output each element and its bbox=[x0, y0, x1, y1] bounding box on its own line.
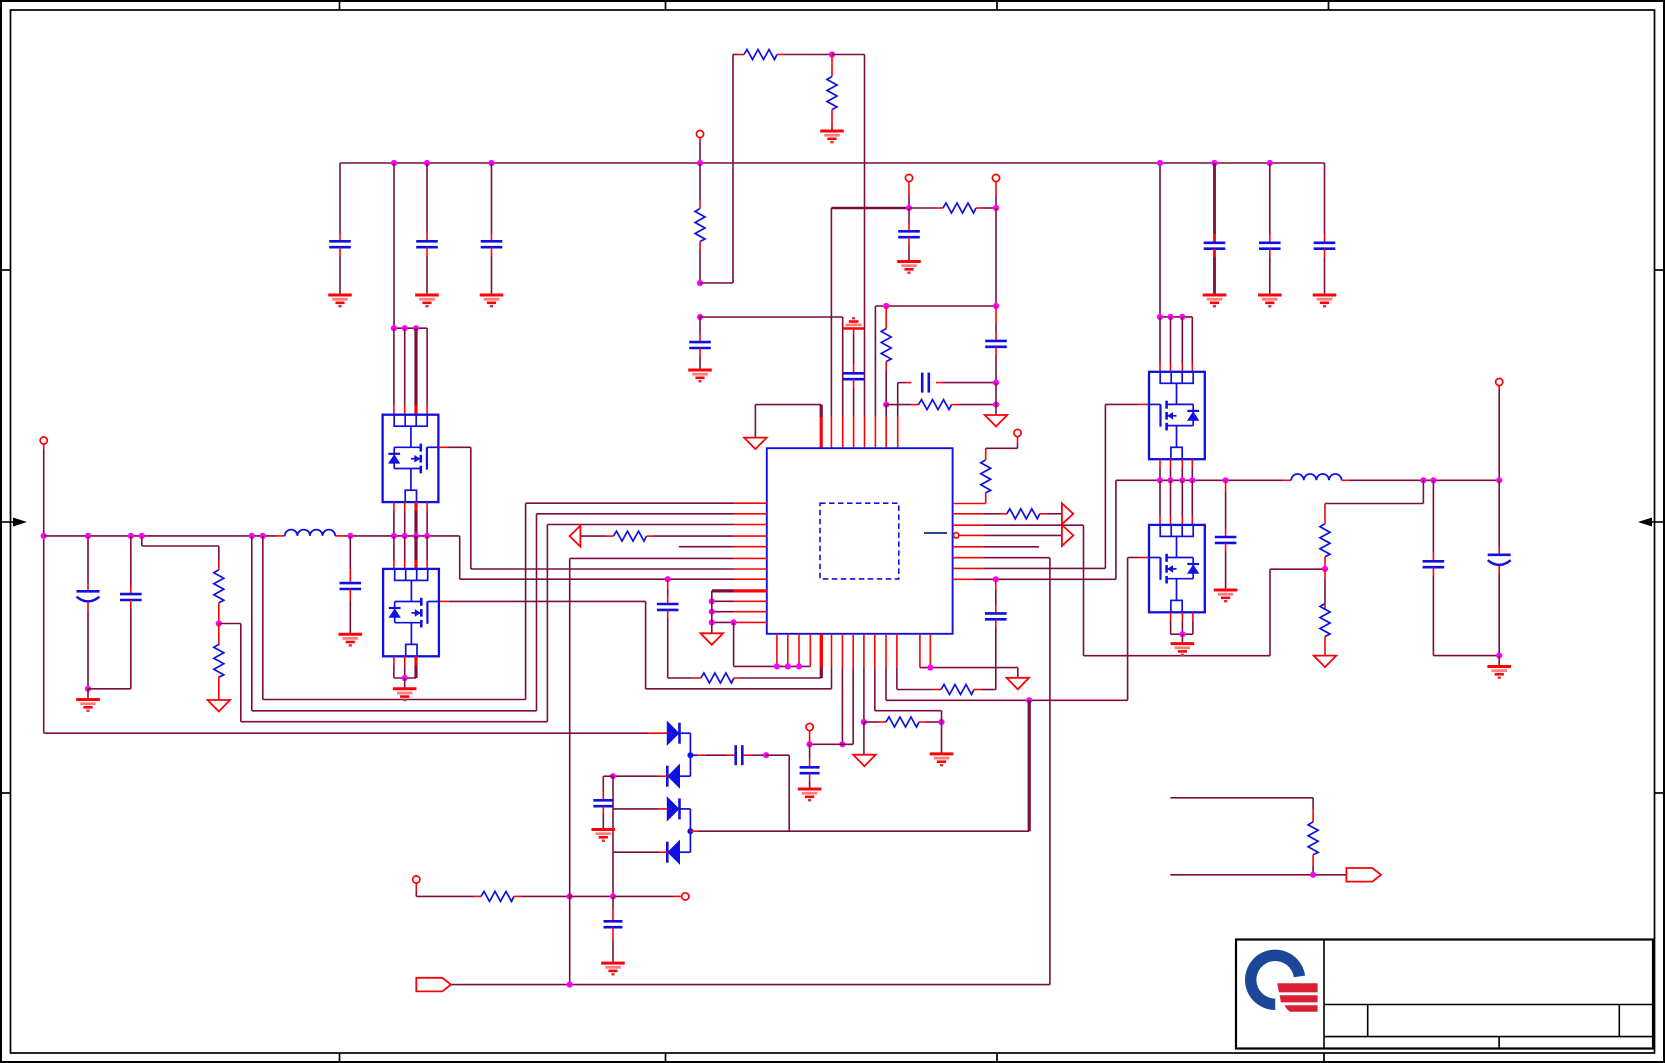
node sw1 bbox=[391, 533, 397, 539]
border zone tick bottom 1 bbox=[339, 1053, 341, 1062]
ground C6 bbox=[1313, 295, 1337, 306]
node 930gnd bbox=[927, 665, 933, 671]
node sw4 bbox=[424, 533, 430, 539]
op-amp U1 body bbox=[767, 448, 953, 634]
wire pin842 down bbox=[841, 634, 843, 745]
wire D2 anode bbox=[680, 755, 691, 776]
node BST-SW bbox=[665, 576, 671, 582]
power pin P8 bbox=[413, 876, 420, 883]
wire row525 fb bbox=[953, 525, 1325, 656]
wire EN net vertical bbox=[569, 558, 571, 984]
wire Q4 drain1 bbox=[1159, 480, 1161, 525]
ground Q2 bbox=[393, 689, 417, 700]
resistor R1 bbox=[695, 163, 705, 283]
border zone tick top 2 bbox=[665, 1, 667, 10]
transistor Q3 bbox=[1149, 372, 1205, 459]
wire row568R gate1 bbox=[953, 404, 1149, 568]
ground flag divider bbox=[208, 700, 231, 712]
title block cell divider 1 bbox=[1367, 1005, 1369, 1037]
node sw2 bbox=[402, 533, 408, 539]
capacitor C5 bbox=[1259, 163, 1281, 295]
node pump-R17 bbox=[610, 893, 616, 899]
border zone tick bottom 2 bbox=[665, 1053, 667, 1062]
node gate-boot bbox=[1026, 697, 1032, 703]
transistor Q4 bbox=[1149, 525, 1205, 612]
wire row503 bbox=[526, 502, 767, 504]
wire rdrain stub1 bbox=[1159, 317, 1161, 372]
wire sense2 bbox=[263, 503, 526, 699]
node bpin2 bbox=[785, 663, 791, 669]
capacitor C10 series bbox=[898, 373, 996, 449]
wire rdrain stub3 bbox=[1181, 317, 1183, 372]
node bus-C4 bbox=[1211, 160, 1217, 166]
U1 pin1 mark bbox=[924, 532, 947, 534]
wire divider-R top bbox=[1325, 480, 1423, 503]
wire row547 stub bbox=[679, 546, 767, 548]
wire sense rail 1 bbox=[1170, 797, 1313, 799]
capacitor C9 bbox=[985, 306, 1007, 383]
wire P2 down bbox=[908, 182, 910, 208]
resistor R12 bbox=[897, 634, 996, 695]
wire rail744 bbox=[810, 743, 854, 745]
node pump-cap bbox=[610, 773, 616, 779]
wire Q2 src join bbox=[394, 677, 416, 679]
node divider mid bbox=[216, 620, 222, 626]
node sense2 bbox=[260, 533, 266, 539]
border center arrow left bbox=[0, 518, 27, 527]
capacitor C17 bbox=[340, 533, 362, 634]
wire D3 anode line bbox=[613, 808, 667, 810]
transistor Q1 bbox=[383, 415, 439, 502]
node B bbox=[697, 314, 703, 320]
diode D2 bbox=[667, 765, 679, 788]
node divider-R tap bbox=[1322, 566, 1328, 572]
wire ILIM gnd bbox=[863, 722, 865, 755]
wire R2 to pin-864 bbox=[832, 55, 865, 449]
power pin P2 bbox=[905, 174, 912, 181]
wire drain header bbox=[394, 327, 427, 329]
capacitor C8 bbox=[898, 208, 920, 262]
wire HS-L drain bus bbox=[393, 163, 395, 328]
node R17-net bbox=[567, 893, 573, 899]
ground C13 bbox=[798, 789, 822, 800]
wire phase-R line B bbox=[1342, 479, 1500, 481]
U1 thermal pad bbox=[820, 503, 899, 579]
title block row line 1 bbox=[1324, 1004, 1653, 1006]
wire VCC rail bbox=[831, 207, 909, 210]
border zone tick top 4 bbox=[1328, 1, 1330, 10]
wire row514 bbox=[537, 513, 767, 515]
ground Q4 bbox=[1171, 644, 1195, 655]
node rd2 bbox=[1167, 314, 1173, 320]
node row579R bbox=[993, 576, 999, 582]
node bus-394 bbox=[391, 160, 397, 166]
wire drain stub2 bbox=[404, 328, 406, 415]
node ro2 bbox=[1430, 477, 1436, 483]
ground C7 bbox=[688, 370, 712, 381]
node D3-D4 bbox=[687, 828, 693, 834]
wire row622 PGND bbox=[712, 621, 767, 623]
ground C18 bbox=[1214, 590, 1238, 601]
wire P1 to bus bbox=[699, 138, 701, 163]
capacitor C1 bbox=[329, 163, 351, 295]
ground flag 1018 bbox=[1007, 678, 1030, 690]
node A bbox=[697, 280, 703, 286]
wire Q2 drain4 bbox=[426, 536, 428, 569]
ground C2 bbox=[415, 295, 439, 306]
wire U1 bottom pin4 bbox=[809, 634, 811, 667]
wire Q4 drain3 bbox=[1181, 480, 1183, 525]
ground C3 bbox=[480, 295, 504, 306]
node bus-700 bbox=[697, 160, 703, 166]
wire drain stub4 bbox=[426, 328, 428, 415]
node PGND2 bbox=[709, 609, 715, 615]
resistor R13 bbox=[142, 536, 224, 624]
wire Q1 src1 bbox=[393, 502, 395, 536]
wire drain stub3 bold bbox=[414, 328, 417, 415]
capacitor C3 bbox=[481, 163, 503, 295]
wire Q2 drain1 bbox=[393, 536, 395, 569]
node C20 gnd bbox=[1496, 653, 1502, 659]
wire gate drive LS-right bbox=[886, 558, 1149, 701]
diode D1 bbox=[667, 722, 679, 745]
border zone tick right 2 bbox=[1655, 792, 1665, 794]
wire pump rail bbox=[690, 830, 1029, 832]
node d3 bbox=[413, 325, 419, 331]
wire D1 cathode bbox=[680, 733, 691, 755]
wire C21 route bbox=[766, 755, 789, 831]
wire Q3 src2 bbox=[1170, 459, 1172, 480]
capacitor C13 bbox=[800, 744, 820, 789]
title block logo divider bbox=[1323, 940, 1325, 1049]
ground C15 bbox=[76, 689, 100, 711]
wire row591 PGND bbox=[712, 589, 767, 592]
wire Q1 src2 bbox=[404, 502, 406, 536]
wire stub P9 bbox=[613, 895, 682, 897]
wire pin874 route bbox=[875, 634, 942, 722]
port PGOOD output bbox=[1062, 503, 1073, 524]
ground flag inverted bbox=[843, 318, 865, 328]
wire 996 down bbox=[995, 208, 997, 306]
node Q4 src bbox=[1179, 631, 1185, 637]
node rsw5 bbox=[1223, 477, 1229, 483]
wire Q4 src2 bbox=[1181, 612, 1183, 634]
ground C5 bbox=[1258, 295, 1282, 306]
node 996-404 bbox=[993, 402, 999, 408]
border zone tick right 1 bbox=[1655, 269, 1665, 271]
capacitor C11 bbox=[843, 329, 865, 449]
node sw3 bbox=[413, 533, 419, 539]
wire pin864 down bbox=[863, 634, 865, 722]
node rd3 bbox=[1179, 314, 1185, 320]
wire Q1 src3 bold bbox=[414, 502, 417, 536]
wire VOUT-L rail bbox=[44, 444, 668, 733]
title block frame bbox=[1236, 940, 1653, 1049]
wire D4 anode bbox=[680, 831, 691, 852]
node sense1 bbox=[249, 533, 255, 539]
capacitor C4 bbox=[1204, 163, 1226, 295]
ground C8 bbox=[897, 262, 921, 273]
capacitor C23 bbox=[604, 897, 623, 963]
wire D2 cathode line bbox=[613, 775, 667, 777]
wire Q2 drain3 bold bbox=[414, 536, 417, 569]
node C15 bbox=[85, 686, 91, 692]
wire U1 bottom pin1 bbox=[776, 634, 778, 667]
capacitor C19 bbox=[1423, 480, 1500, 655]
border zone tick left 2 bbox=[1, 792, 11, 794]
wire D4 cathode line bbox=[613, 851, 667, 853]
wire Q4 src1 bbox=[1171, 612, 1183, 634]
wire Q2 src2 bbox=[404, 656, 406, 678]
border zone tick top 1 bbox=[339, 1, 341, 10]
ground flag PGND bbox=[701, 633, 724, 645]
node Q2 src bbox=[402, 675, 408, 681]
power pin P5 bbox=[806, 723, 813, 730]
power pin P9 bbox=[682, 893, 689, 900]
wire P5 stub bbox=[809, 731, 811, 745]
capacitor C2 bbox=[416, 163, 438, 295]
wire row579 bbox=[460, 578, 767, 580]
node ro1 bbox=[1420, 477, 1426, 483]
resistor R9 bbox=[953, 509, 1062, 519]
wire drain header R bbox=[1160, 316, 1192, 318]
wire gate drive LS-left bbox=[439, 601, 832, 688]
port RUN input bbox=[416, 978, 451, 992]
logo red stripe 3 bbox=[1285, 1005, 1318, 1012]
resistor R10 bootstrap bbox=[668, 673, 821, 683]
wire pin831 up bbox=[830, 208, 832, 448]
wire PGND stem bbox=[711, 591, 713, 633]
node bpin3 bbox=[796, 663, 802, 669]
wire pin875 feedback rail bbox=[875, 306, 996, 448]
node rsw3 bbox=[1179, 477, 1185, 483]
ground R3 bbox=[820, 131, 844, 142]
wire AGND L bbox=[755, 405, 821, 449]
wire R17 to pump bbox=[570, 895, 613, 897]
wire Q2 src3 bold bbox=[414, 656, 417, 678]
ground flag FB bbox=[985, 415, 1008, 427]
node rsw2 bbox=[1167, 477, 1173, 483]
capacitor C20 pol bbox=[1488, 480, 1511, 655]
ground C23 bbox=[601, 963, 625, 974]
port SYNC output bbox=[1062, 525, 1073, 546]
node rsw4 bbox=[1189, 477, 1195, 483]
wire Q1 gate bbox=[438, 447, 470, 569]
node bpin1 bbox=[774, 663, 780, 669]
node rsw1 bbox=[1157, 477, 1163, 483]
node PGND4 bbox=[731, 619, 737, 625]
ground flag ILIM bbox=[853, 755, 876, 767]
ground flag AGND bbox=[744, 438, 767, 450]
wire R11 gnd bbox=[941, 722, 943, 754]
resistor R6 bbox=[886, 400, 996, 410]
wire Q4 drain4 bbox=[1191, 480, 1193, 525]
wire 996 to gnd bbox=[995, 383, 997, 415]
capacitor C22 bbox=[593, 776, 613, 829]
wire row524 bbox=[547, 524, 766, 526]
resistor R18 bbox=[1308, 798, 1318, 875]
U1 inverted pin bubble bbox=[954, 533, 959, 538]
ground C1 bbox=[328, 295, 352, 306]
node R2-R3 bbox=[829, 51, 835, 57]
resistor R14 bbox=[214, 624, 224, 701]
wire row569 bbox=[471, 568, 767, 570]
title block cell divider 3 bbox=[1498, 1037, 1500, 1049]
wire P3 down bbox=[995, 182, 997, 208]
resistor R5 bbox=[881, 306, 891, 405]
diode D3 bbox=[667, 797, 679, 820]
node VOUTL phase bbox=[41, 533, 47, 539]
wire pin853 down bbox=[852, 634, 854, 745]
wire Q4 src3 bbox=[1182, 612, 1193, 634]
wire PGND to bottom pins bbox=[734, 622, 811, 666]
node rd1 bbox=[1157, 314, 1163, 320]
wire row579R bbox=[953, 480, 1116, 579]
wire drain stub1 bbox=[393, 328, 395, 415]
ground flag divider-R bbox=[1314, 656, 1337, 668]
capacitor C15 pol bbox=[77, 533, 100, 689]
wire U1 bottom pin3 bbox=[798, 634, 800, 667]
capacitor C14 bbox=[985, 579, 1007, 689]
title block row line 2 bbox=[1324, 1036, 1653, 1038]
node bus-C3 bbox=[488, 160, 494, 166]
node C21 bbox=[763, 752, 769, 758]
resistor R17 bbox=[416, 883, 569, 901]
wire rdrain stub4 bbox=[1191, 317, 1193, 372]
wire D3 cathode bbox=[680, 809, 691, 831]
wire sense1 bbox=[252, 514, 537, 711]
wire Q4 gnd bbox=[1181, 634, 1183, 643]
wire row547R stub bbox=[953, 546, 1039, 548]
node pin842 bbox=[839, 741, 845, 747]
node ILIM bbox=[861, 719, 867, 725]
node FB1 bbox=[883, 303, 889, 309]
wire VIN bus bbox=[340, 162, 1325, 164]
wire FB2 to IC pin bbox=[885, 405, 887, 449]
wire row503R bbox=[953, 503, 986, 505]
wire row558R bbox=[953, 558, 1050, 985]
wire Q3 src4 bbox=[1191, 459, 1193, 480]
wire row535 bbox=[959, 534, 1062, 536]
capacitor C18 bbox=[1215, 480, 1237, 590]
wire rdrain stub2 bbox=[1170, 317, 1172, 372]
capacitor C12 bootstrap bbox=[657, 579, 679, 678]
wire BST pin bold bbox=[820, 634, 823, 678]
border zone tick top 3 bbox=[996, 1, 998, 10]
logo red stripe 1 bbox=[1277, 983, 1317, 992]
wire pins 920-930 gnd bbox=[920, 634, 1018, 678]
wire row601 PGND bbox=[712, 600, 767, 602]
resistor R4 bbox=[909, 203, 996, 213]
node ro3 bbox=[1496, 477, 1502, 483]
wire P7 down bbox=[1498, 386, 1500, 481]
capacitor C21 series bbox=[690, 745, 766, 765]
power pin P7 output-R bbox=[1496, 378, 1503, 385]
inductor L1 bbox=[285, 530, 335, 536]
border zone tick bottom 3 bbox=[996, 1053, 998, 1062]
node d1 bbox=[391, 325, 397, 331]
resistor R7 bbox=[580, 531, 766, 541]
capacitor C7 bbox=[689, 317, 711, 370]
wire row558 bbox=[570, 557, 767, 559]
power pin P4 bbox=[1014, 429, 1021, 436]
wire node B to IC pin bbox=[700, 317, 843, 448]
node divider tap bbox=[139, 533, 145, 539]
ground R11 bbox=[930, 754, 954, 765]
capacitor C6 bbox=[1314, 163, 1336, 295]
border zone tick left 1 bbox=[1, 269, 11, 271]
wire node A to R2 branch bbox=[700, 55, 733, 284]
wire boot rail bold bbox=[1028, 700, 1031, 831]
wire Q4 drain2 bbox=[1170, 480, 1172, 525]
node P5 bbox=[807, 741, 813, 747]
power pin P6 output-L bbox=[40, 437, 47, 444]
resistor R3 bbox=[827, 55, 837, 132]
wire RUN line bbox=[451, 984, 1050, 986]
node bus-1160 bbox=[1157, 160, 1163, 166]
border zone tick bottom 4 bbox=[1323, 1053, 1325, 1062]
node bus-C5 bbox=[1267, 160, 1273, 166]
wire phase-R line bbox=[1116, 479, 1291, 481]
wire phase-L line A bbox=[44, 535, 285, 537]
wire divider sense bbox=[219, 525, 548, 722]
node d2 bbox=[402, 325, 408, 331]
node P3-R4 bbox=[993, 205, 999, 211]
node 996-306 bbox=[993, 303, 999, 309]
power pin P3 bbox=[992, 174, 999, 181]
node VCC-C8 bbox=[906, 205, 912, 211]
wire Q2 drain2 bbox=[404, 536, 406, 569]
wire phase-L line B bbox=[335, 536, 460, 579]
ground C4 bbox=[1203, 295, 1227, 306]
wire HS-R drain bus bbox=[1159, 163, 1161, 317]
ground C20 bbox=[1487, 667, 1511, 678]
wire Q3 src1 bbox=[1159, 459, 1161, 480]
title block cell divider 2 bbox=[1618, 1005, 1620, 1037]
node PGND1 bbox=[709, 598, 715, 604]
diode D4 bbox=[667, 841, 679, 864]
node D1-D2 bbox=[687, 752, 693, 758]
wire C20 gnd bbox=[1498, 656, 1500, 667]
resistor R11 bbox=[864, 717, 942, 727]
wire Q3 src3 bbox=[1181, 459, 1183, 480]
resistor R16 bbox=[1320, 569, 1330, 656]
resistor R15 bbox=[1320, 504, 1330, 569]
border center arrow right bbox=[1638, 518, 1665, 527]
wire pump-cap drop bbox=[612, 776, 614, 896]
wire Q2 src gnd bbox=[404, 678, 406, 689]
node R18 bbox=[1310, 872, 1316, 878]
node RUN bbox=[567, 982, 573, 988]
wire row612 PGND bbox=[712, 611, 767, 613]
node R11 bbox=[938, 719, 944, 725]
logo blue ring bbox=[1245, 950, 1305, 1010]
port VSENSE output bbox=[1346, 868, 1381, 882]
wire sense rail 2 bbox=[1170, 874, 1346, 876]
node 996-382 bbox=[993, 380, 999, 386]
resistor R2 bbox=[733, 50, 832, 60]
wire U1 bottom pin2 bbox=[787, 634, 789, 667]
inductor L2 bbox=[1291, 474, 1341, 480]
capacitor C16 bbox=[88, 533, 142, 689]
wire Q1 src4 bbox=[426, 502, 428, 536]
resistor R8 bbox=[981, 437, 1018, 504]
logo red stripe 2 bbox=[1280, 995, 1318, 1002]
node bus-C2 bbox=[424, 160, 430, 166]
transistor Q2 bbox=[383, 569, 439, 656]
power pin P1 bbox=[696, 130, 703, 137]
ground C22 bbox=[592, 830, 616, 841]
